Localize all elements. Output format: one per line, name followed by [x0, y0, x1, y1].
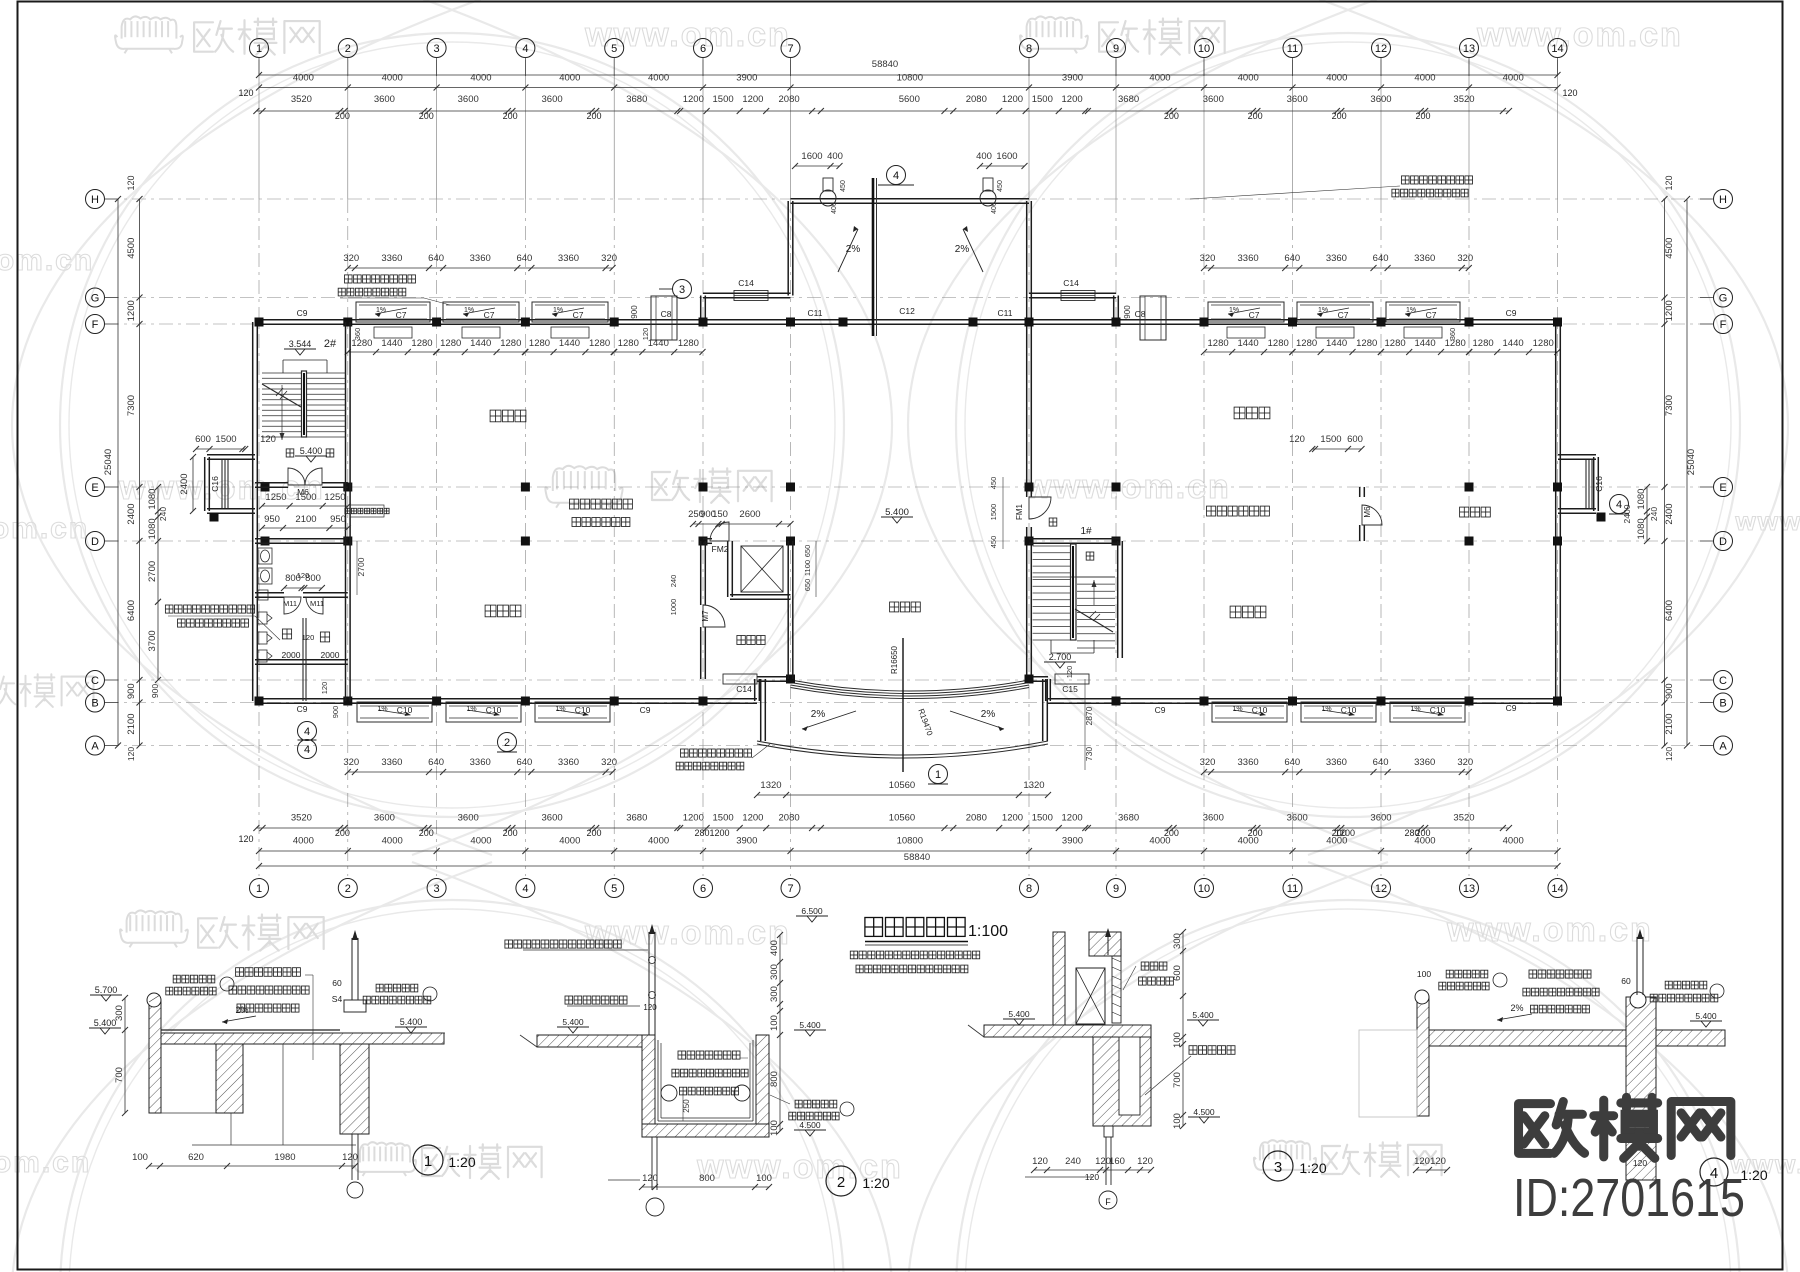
- svg-text:9: 9: [1113, 43, 1119, 55]
- svg-text:120: 120: [302, 633, 315, 642]
- svg-text:1200: 1200: [126, 300, 137, 321]
- svg-text:2870: 2870: [1084, 706, 1094, 725]
- right bay C16: [1558, 458, 1596, 460]
- svg-text:58840: 58840: [904, 852, 930, 863]
- callout 4/4 bottom left: [298, 722, 317, 741]
- svg-text:120: 120: [1137, 1156, 1153, 1167]
- svg-text:3: 3: [679, 284, 685, 296]
- svg-text:200: 200: [1415, 111, 1430, 121]
- svg-text:1:20: 1:20: [862, 1175, 889, 1191]
- svg-text:3900: 3900: [736, 73, 757, 84]
- svg-text:3600: 3600: [458, 813, 479, 824]
- svg-text:3600: 3600: [542, 813, 563, 824]
- svg-text:A: A: [1719, 741, 1727, 753]
- svg-text:C9: C9: [297, 704, 308, 714]
- svg-text:H: H: [1719, 194, 1727, 206]
- svg-text:10: 10: [1198, 43, 1210, 55]
- svg-text:120: 120: [342, 1152, 358, 1163]
- svg-text:FM2: FM2: [712, 544, 729, 554]
- svg-text:1%: 1%: [553, 307, 563, 314]
- svg-text:10560: 10560: [889, 780, 915, 791]
- stair landing 2#: [283, 359, 327, 361]
- svg-text:3600: 3600: [1203, 94, 1224, 105]
- room labels: [490, 410, 526, 422]
- svg-text:F: F: [92, 319, 99, 331]
- svg-text:2%: 2%: [1510, 1003, 1523, 1013]
- bottom overall: [259, 865, 1558, 867]
- toilet labels: [282, 629, 291, 639]
- svg-text:58840: 58840: [872, 59, 898, 70]
- svg-text:1440: 1440: [470, 338, 491, 349]
- svg-text:120: 120: [1032, 1156, 1048, 1167]
- svg-text:3600: 3600: [542, 94, 563, 105]
- d3 label circle: [1263, 1151, 1293, 1181]
- svg-text:5: 5: [611, 43, 617, 55]
- svg-text:4000: 4000: [1238, 836, 1259, 847]
- svg-text:900: 900: [630, 305, 639, 319]
- left overall 25040: [117, 199, 119, 746]
- stair arrows 2#: [281, 385, 283, 440]
- balcony floor edge arc: [757, 741, 1048, 755]
- svg-text:100: 100: [756, 1173, 772, 1184]
- svg-text:1600: 1600: [996, 151, 1017, 162]
- svg-text:2080: 2080: [779, 94, 800, 105]
- svg-text:5.400: 5.400: [1192, 1010, 1214, 1020]
- watermark logos: [115, 16, 183, 53]
- svg-text:200: 200: [1332, 111, 1347, 121]
- svg-text:360: 360: [353, 328, 362, 341]
- svg-text:S4: S4: [332, 994, 343, 1004]
- svg-text:320: 320: [1200, 253, 1216, 264]
- svg-text:D: D: [1719, 536, 1727, 548]
- terrace bump walls: [791, 202, 1030, 204]
- svg-text:3680: 3680: [1118, 94, 1139, 105]
- svg-text:4000: 4000: [382, 73, 403, 84]
- svg-text:2801200: 2801200: [694, 828, 729, 838]
- svg-text:C7: C7: [1338, 310, 1349, 320]
- svg-text:5.400: 5.400: [1695, 1011, 1717, 1021]
- svg-text:11: 11: [1287, 883, 1298, 895]
- svg-text:900: 900: [331, 706, 340, 719]
- svg-text:200: 200: [1164, 111, 1179, 121]
- svg-text:1080: 1080: [147, 489, 158, 510]
- d4 left ghost box: [1359, 1030, 1417, 1117]
- svg-text:450: 450: [989, 477, 998, 490]
- column grid lines: [258, 60, 260, 199]
- svg-text:1%: 1%: [555, 706, 565, 713]
- svg-text:3: 3: [434, 883, 440, 895]
- bay corner columns: [210, 513, 219, 522]
- svg-text:400: 400: [991, 202, 998, 214]
- svg-text:1%: 1%: [466, 706, 476, 713]
- svg-text:120: 120: [1664, 747, 1674, 761]
- svg-text:240: 240: [1065, 1156, 1081, 1167]
- stair rail 2#: [302, 371, 307, 437]
- svg-text:4: 4: [304, 744, 310, 756]
- svg-text:25040: 25040: [103, 449, 114, 475]
- svg-text:2: 2: [345, 43, 351, 55]
- svg-text:14: 14: [1551, 883, 1563, 895]
- svg-text:1: 1: [935, 769, 941, 781]
- svg-text:1: 1: [256, 43, 262, 55]
- svg-text:3: 3: [434, 43, 440, 55]
- svg-text:2000: 2000: [321, 650, 340, 660]
- svg-text:300: 300: [114, 1005, 125, 1021]
- right segments: [1664, 199, 1666, 746]
- columns on C wall balcony: [786, 675, 795, 684]
- d1 roof line: [161, 1029, 340, 1031]
- d2 slab: [537, 1035, 642, 1047]
- svg-text:4000: 4000: [470, 836, 491, 847]
- callout circle 4 top: [887, 166, 906, 185]
- svg-text:250: 250: [682, 1099, 691, 1113]
- d3 slab: [984, 1025, 1151, 1037]
- svg-text:10560: 10560: [889, 813, 915, 824]
- svg-text:1%: 1%: [1410, 706, 1420, 713]
- svg-text:640: 640: [516, 757, 532, 768]
- svg-text:2%: 2%: [811, 709, 826, 720]
- svg-text:60: 60: [332, 978, 342, 988]
- svg-text:C7: C7: [573, 310, 584, 320]
- svg-text:600: 600: [195, 434, 211, 445]
- svg-text:C9: C9: [297, 308, 308, 318]
- svg-text:4: 4: [522, 43, 528, 55]
- svg-text:200: 200: [419, 111, 434, 121]
- svg-text:1280: 1280: [618, 338, 639, 349]
- svg-text:2%: 2%: [955, 244, 970, 255]
- storage room walls: [700, 541, 702, 605]
- svg-text:1500: 1500: [1320, 434, 1341, 445]
- svg-text:13: 13: [1463, 43, 1475, 55]
- svg-text:C9: C9: [1155, 705, 1166, 715]
- svg-text:120: 120: [126, 747, 136, 761]
- svg-text:120: 120: [238, 88, 253, 98]
- svg-text:3600: 3600: [1287, 813, 1308, 824]
- bottom dim segments: [256, 827, 1509, 829]
- svg-text:320: 320: [343, 253, 359, 264]
- svg-text:2400: 2400: [179, 473, 190, 494]
- svg-text:www.om.cn: www.om.cn: [1476, 16, 1683, 54]
- svg-text:9: 9: [1113, 883, 1119, 895]
- svg-text:200: 200: [503, 828, 518, 838]
- svg-text:3360: 3360: [1326, 757, 1347, 768]
- svg-text:C14: C14: [1063, 278, 1079, 288]
- svg-text:F: F: [1720, 319, 1727, 331]
- svg-text:3600: 3600: [1370, 813, 1391, 824]
- svg-text:800: 800: [769, 1071, 780, 1087]
- toilet block walls: [255, 542, 348, 544]
- svg-text:10800: 10800: [897, 73, 923, 84]
- svg-text:3600: 3600: [458, 94, 479, 105]
- d3 lower wall: [1093, 1037, 1151, 1126]
- right sub dims: [1646, 487, 1648, 541]
- svg-text:650: 650: [803, 579, 812, 592]
- svg-text:1280: 1280: [678, 338, 699, 349]
- svg-text:1280: 1280: [500, 338, 521, 349]
- svg-text:www.om.cn: www.om.cn: [584, 914, 791, 952]
- watermark big circles: [60, 33, 844, 817]
- svg-text:5.400: 5.400: [885, 507, 909, 518]
- svg-text:6.500: 6.500: [801, 906, 823, 916]
- svg-text:1500: 1500: [1032, 94, 1053, 105]
- d1 parapet wall hatched: [149, 1000, 161, 1113]
- svg-text:B: B: [1719, 698, 1726, 710]
- top window dims: [348, 267, 613, 269]
- svg-text:4500: 4500: [126, 238, 137, 259]
- svg-text:3900: 3900: [1062, 73, 1083, 84]
- svg-text:320: 320: [1457, 253, 1473, 264]
- C10 windows bottom: [357, 702, 432, 722]
- svg-text:4000: 4000: [470, 73, 491, 84]
- svg-text:120: 120: [1664, 175, 1674, 190]
- svg-text:1200: 1200: [742, 813, 763, 824]
- M6 right door: [1359, 487, 1361, 497]
- elevator shaft: [727, 541, 729, 597]
- pipe right: [980, 190, 996, 206]
- svg-text:3600: 3600: [1203, 813, 1224, 824]
- terrace columns: [839, 318, 848, 327]
- callout circle 3 C8: [673, 280, 692, 299]
- d3 top pipe: [1107, 930, 1109, 955]
- svg-text:C11: C11: [808, 308, 823, 318]
- d1 slab hatched: [161, 1033, 444, 1044]
- svg-text:100: 100: [132, 1152, 148, 1163]
- M11 doors: [284, 597, 301, 614]
- svg-text:120: 120: [1289, 434, 1305, 445]
- svg-text:320: 320: [343, 757, 359, 768]
- svg-text:450: 450: [840, 180, 847, 192]
- svg-text:3900: 3900: [1062, 836, 1083, 847]
- svg-text:1500: 1500: [713, 813, 734, 824]
- svg-text:2080: 2080: [779, 813, 800, 824]
- svg-text:5.400: 5.400: [562, 1017, 584, 1027]
- svg-text:1320: 1320: [1023, 780, 1044, 791]
- top dim overall 58840: [259, 74, 1558, 76]
- svg-text:150: 150: [712, 509, 728, 520]
- exterior wall left: [252, 322, 254, 701]
- svg-text:1600: 1600: [801, 151, 822, 162]
- svg-text:1%: 1%: [1406, 307, 1416, 314]
- d3 right dim ladder: [1182, 932, 1184, 1126]
- d4 label circle: [1700, 1158, 1728, 1186]
- d1 left dims: [124, 998, 126, 1113]
- stair break line 2#: [262, 384, 301, 407]
- svg-text:E: E: [91, 482, 98, 494]
- columns on F wall: [255, 318, 264, 327]
- svg-text:5.400: 5.400: [400, 1017, 423, 1027]
- svg-text:1:20: 1:20: [1299, 1160, 1326, 1176]
- top local dims pipes: [795, 165, 840, 167]
- svg-text:640: 640: [428, 253, 444, 264]
- svg-text:1280: 1280: [440, 338, 461, 349]
- row grid lines: [105, 198, 1712, 200]
- svg-text:1200: 1200: [1062, 813, 1083, 824]
- svg-text:3360: 3360: [1414, 253, 1435, 264]
- svg-text:800: 800: [699, 1173, 715, 1184]
- svg-text:4: 4: [304, 726, 310, 738]
- svg-text:C: C: [91, 675, 99, 687]
- svg-text:2: 2: [837, 1174, 845, 1191]
- svg-text:8: 8: [1026, 43, 1032, 55]
- svg-text:7300: 7300: [126, 395, 137, 416]
- svg-text:3600: 3600: [374, 94, 395, 105]
- d4 parapet left: [1417, 997, 1429, 1116]
- svg-text:640: 640: [1373, 757, 1389, 768]
- svg-text:1500: 1500: [713, 94, 734, 105]
- svg-text:1000: 1000: [669, 599, 678, 616]
- svg-text:120: 120: [1065, 666, 1074, 679]
- svg-text:1500: 1500: [295, 492, 316, 503]
- svg-text:4000: 4000: [1414, 73, 1435, 84]
- svg-text:3.544: 3.544: [289, 339, 312, 349]
- svg-text:C10: C10: [1341, 705, 1357, 715]
- left bay C16: [207, 458, 255, 460]
- svg-text:FM1: FM1: [1015, 503, 1024, 520]
- svg-text:13: 13: [1463, 883, 1475, 895]
- svg-text:5.400: 5.400: [94, 1018, 117, 1028]
- exterior wall right: [1555, 322, 1557, 701]
- svg-text:www.om.cn: www.om.cn: [1446, 911, 1653, 949]
- svg-text:120: 120: [126, 175, 136, 190]
- svg-text:1250: 1250: [324, 492, 345, 503]
- svg-text:600: 600: [1347, 434, 1363, 445]
- svg-text:C14: C14: [738, 278, 754, 288]
- svg-text:C15: C15: [1062, 684, 1078, 694]
- svg-text:2100: 2100: [295, 514, 316, 525]
- pipe left: [820, 190, 836, 206]
- svg-text:320: 320: [601, 253, 617, 264]
- d2 bottom dims: [642, 1186, 769, 1188]
- d3 bottom pipe: [1105, 1137, 1107, 1185]
- svg-text:ID:2701615: ID:2701615: [1513, 1168, 1745, 1228]
- svg-text:4000: 4000: [1503, 73, 1524, 84]
- left local dim 2400 bay: [192, 457, 194, 511]
- svg-text:200: 200: [419, 828, 434, 838]
- svg-text:400: 400: [769, 940, 780, 956]
- svg-text:4: 4: [1616, 499, 1622, 511]
- svg-text:1500: 1500: [1032, 813, 1053, 824]
- svg-text:400: 400: [976, 151, 992, 162]
- svg-text:4000: 4000: [293, 836, 314, 847]
- left segments: [139, 199, 141, 746]
- svg-text:1200: 1200: [1002, 813, 1023, 824]
- svg-text:F: F: [1105, 1197, 1111, 1207]
- svg-text:1: 1: [256, 883, 262, 895]
- d2 right dim ladder: [779, 935, 781, 1131]
- svg-text:1280: 1280: [1533, 338, 1554, 349]
- svg-text:950: 950: [330, 514, 346, 525]
- svg-text:200: 200: [586, 828, 601, 838]
- svg-text:1280: 1280: [529, 338, 550, 349]
- d3 bottom dims: [1034, 1169, 1151, 1171]
- svg-text:6400: 6400: [126, 600, 137, 621]
- svg-text:2#: 2#: [324, 338, 337, 350]
- grid bubbles bottom: [250, 879, 269, 898]
- svg-text:R16650: R16650: [890, 645, 899, 674]
- svg-text:C7: C7: [396, 310, 407, 320]
- svg-text:10800: 10800: [897, 836, 923, 847]
- svg-text:3680: 3680: [626, 94, 647, 105]
- svg-text:2: 2: [504, 737, 510, 749]
- svg-text:5.400: 5.400: [1008, 1009, 1030, 1019]
- callout 2 bottom: [498, 733, 517, 752]
- svg-text:2100: 2100: [1664, 713, 1675, 734]
- exterior wall B bottom left wing: [255, 702, 757, 704]
- svg-text:3360: 3360: [381, 253, 402, 264]
- svg-text:100: 100: [769, 1015, 780, 1031]
- callout circle 1 balcony: [929, 765, 948, 784]
- svg-text:G: G: [91, 293, 100, 305]
- svg-text:120: 120: [1085, 1172, 1099, 1182]
- svg-text:4000: 4000: [559, 73, 580, 84]
- svg-text:400: 400: [831, 202, 838, 214]
- svg-text:120: 120: [320, 682, 329, 695]
- svg-text:4500: 4500: [1664, 238, 1675, 259]
- d2 drains: [661, 1085, 677, 1101]
- FM1 door: [1029, 497, 1051, 519]
- d1 railing: [351, 938, 353, 1000]
- svg-text:3600: 3600: [1370, 94, 1391, 105]
- svg-text:100: 100: [1417, 969, 1431, 979]
- svg-text:C9: C9: [640, 705, 651, 715]
- svg-text:3900: 3900: [736, 836, 757, 847]
- row bubbles left: [86, 190, 105, 209]
- svg-text:3360: 3360: [558, 757, 579, 768]
- d1 slope: [222, 1016, 256, 1022]
- svg-text:3700: 3700: [147, 630, 158, 651]
- C14/C15 bottom windows: [723, 674, 757, 684]
- svg-text:4: 4: [522, 883, 528, 895]
- svg-text:1280: 1280: [411, 338, 432, 349]
- svg-text:C10: C10: [1430, 705, 1446, 715]
- columns row D: [261, 537, 270, 546]
- center bottom wall C: [757, 680, 791, 682]
- svg-text:C10: C10: [1252, 705, 1268, 715]
- d3 texts: [1141, 962, 1167, 970]
- balcony slope arrows: [802, 711, 856, 729]
- C7 windows top left wing: [356, 302, 430, 322]
- svg-text:G: G: [1719, 293, 1728, 305]
- svg-text:3360: 3360: [558, 253, 579, 264]
- balcony dims: [757, 794, 1048, 796]
- svg-text:320: 320: [601, 757, 617, 768]
- svg-text:120: 120: [641, 328, 650, 341]
- G walls with C14: [703, 297, 791, 299]
- svg-text:1440: 1440: [1326, 338, 1347, 349]
- svg-text:640: 640: [1373, 253, 1389, 264]
- svg-text:1#: 1#: [1080, 526, 1092, 537]
- svg-text:640: 640: [1284, 253, 1300, 264]
- svg-text:3360: 3360: [1326, 253, 1347, 264]
- svg-text:1280: 1280: [1296, 338, 1317, 349]
- svg-text:1%: 1%: [1229, 307, 1239, 314]
- d3 louver box: [1076, 968, 1105, 1024]
- svg-text:300: 300: [769, 964, 780, 980]
- svg-text:3600: 3600: [374, 813, 395, 824]
- d2 bottom pipe: [651, 1137, 653, 1190]
- svg-text:12: 12: [1375, 43, 1387, 55]
- svg-text:120: 120: [1562, 88, 1577, 98]
- svg-text:D: D: [91, 536, 99, 548]
- svg-text:4000: 4000: [1326, 73, 1347, 84]
- svg-text:5.400: 5.400: [799, 1020, 821, 1030]
- M6 door left: [288, 468, 305, 485]
- svg-text:200: 200: [335, 111, 350, 121]
- svg-text:200: 200: [586, 111, 601, 121]
- svg-text:1200: 1200: [1664, 300, 1675, 321]
- svg-text:1280: 1280: [1208, 338, 1229, 349]
- svg-text:300: 300: [769, 986, 780, 1002]
